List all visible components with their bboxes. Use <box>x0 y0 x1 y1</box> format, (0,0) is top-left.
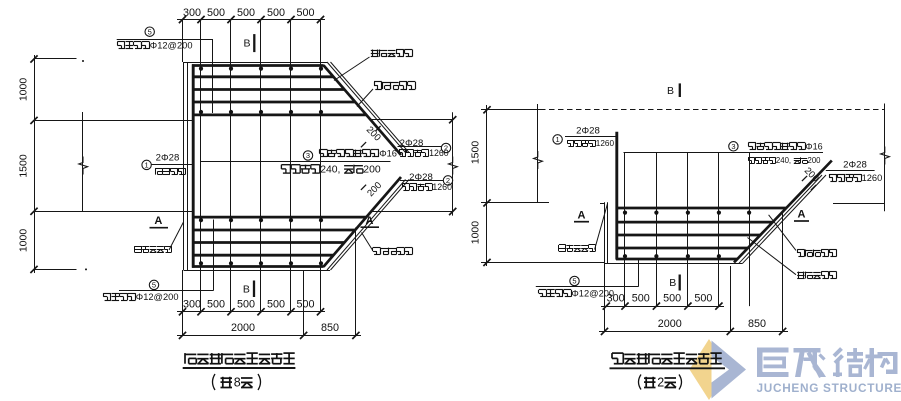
break symbol <box>534 151 543 169</box>
ext line <box>782 212 784 331</box>
dim tick <box>653 303 660 310</box>
grout outline diag top A <box>327 62 406 153</box>
dim tick <box>715 303 722 310</box>
dim line bottom (2000,850) <box>177 335 361 337</box>
dim tick <box>317 308 324 315</box>
label leader <box>357 89 373 107</box>
logo char GOU <box>870 348 875 377</box>
svg-text:2000: 2000 <box>658 318 682 330</box>
ext line left col <box>182 20 184 63</box>
svg-text:500: 500 <box>267 7 285 19</box>
label 3 circle <box>303 151 312 160</box>
label new grout text <box>374 81 382 83</box>
dim tick <box>483 259 490 266</box>
svg-text:A: A <box>366 215 374 227</box>
label 1 circle <box>142 160 151 169</box>
rebar dot <box>259 261 263 265</box>
corbel bar (bottom corbel) <box>192 254 334 257</box>
break symbol <box>79 157 88 175</box>
label 5 leader drop <box>212 40 214 114</box>
steel plate line <box>604 202 606 263</box>
svg-text:B: B <box>669 277 676 289</box>
label 1 text depth <box>567 140 574 142</box>
svg-text:500: 500 <box>267 298 285 310</box>
corbel bar (top corbel) <box>192 75 334 78</box>
ext line <box>730 266 732 331</box>
svg-text:2000: 2000 <box>231 322 255 334</box>
label 3 circle <box>729 142 738 151</box>
logo char JU <box>757 348 789 353</box>
section B bar <box>253 34 255 52</box>
ext line <box>303 270 305 335</box>
corbel bar (bottom corbel) <box>192 241 345 244</box>
svg-text:200: 200 <box>802 165 821 184</box>
title left drawing <box>184 353 186 364</box>
rebar line vertical <box>260 20 262 312</box>
rebar dot <box>199 110 203 114</box>
dim tick <box>257 308 264 315</box>
dim tick <box>317 16 324 23</box>
svg-text:300: 300 <box>607 293 625 305</box>
corbel bar <box>616 234 760 237</box>
svg-text:2: 2 <box>444 144 448 153</box>
rebar dot <box>199 67 203 71</box>
corbel bar (top corbel) <box>192 88 345 91</box>
rebar dot <box>717 211 721 215</box>
dim tick <box>179 332 186 339</box>
section B bar <box>253 281 255 298</box>
grout outline diag bottom B <box>331 180 410 271</box>
grout outline diag A <box>743 175 826 263</box>
rebar dot <box>319 218 323 222</box>
pier left edge line <box>82 112 84 212</box>
dim ext <box>481 109 540 111</box>
steel plate left line <box>183 62 185 270</box>
rebar line vertical <box>290 20 292 312</box>
dim line right vertical <box>452 112 454 215</box>
label leader <box>362 233 373 250</box>
svg-text:200: 200 <box>808 156 822 165</box>
steel plate left line 2 <box>187 62 189 270</box>
svg-text:850: 850 <box>748 318 766 330</box>
svg-text:500: 500 <box>296 7 314 19</box>
svg-text:1500: 1500 <box>470 141 482 165</box>
svg-text:A: A <box>798 209 806 221</box>
svg-text:1: 1 <box>556 135 560 144</box>
label 5 leader <box>536 286 639 288</box>
rebar dot <box>686 211 690 215</box>
label 3 text line1 <box>319 149 327 151</box>
dim ext / pier edge <box>481 202 549 204</box>
diag dim tick <box>802 176 807 181</box>
svg-text:200: 200 <box>365 180 384 199</box>
diag dim tick <box>811 185 816 190</box>
grout outline bottom <box>184 270 331 272</box>
label 2 text depth <box>399 149 406 151</box>
dim ext <box>481 262 604 264</box>
title underline <box>183 367 296 369</box>
label 5 leader rise <box>213 220 215 291</box>
plate step <box>600 203 604 205</box>
label 3 leader <box>624 152 824 154</box>
dim tick <box>197 16 204 23</box>
diag dim tick <box>361 142 366 147</box>
dim tick <box>449 208 456 215</box>
break symbol <box>881 147 890 165</box>
pier edge top right <box>371 119 453 121</box>
label 1 text <box>155 168 157 175</box>
dim line bottom (300,500x4) <box>177 311 325 313</box>
label 3 text line2 <box>281 164 290 166</box>
corbel edge diag (thick) <box>734 161 832 263</box>
svg-text:2Φ28: 2Φ28 <box>400 138 424 149</box>
grout outline diag B <box>739 175 822 263</box>
dim tick <box>30 55 37 62</box>
label 1 circle <box>553 135 562 144</box>
pier edge bottom right <box>371 211 453 213</box>
label leader <box>748 238 797 275</box>
dim line bottom (2000,850) <box>599 331 788 333</box>
rebar dot <box>319 67 323 71</box>
section B bar <box>679 83 681 97</box>
rebar dot <box>319 261 323 265</box>
corbel bar (bottom corbel) <box>192 265 324 268</box>
section B bar <box>679 275 681 291</box>
dim tick <box>197 308 204 315</box>
rebar dot <box>319 110 323 114</box>
corbel bar <box>616 258 737 261</box>
svg-text:500: 500 <box>694 293 712 305</box>
logo triangle blue <box>712 341 747 399</box>
diag dim tick <box>361 185 366 190</box>
svg-text:B: B <box>667 85 674 97</box>
svg-text:JUCHENG STRUCTURE: JUCHENG STRUCTURE <box>757 381 901 395</box>
svg-text:2Φ28: 2Φ28 <box>843 160 867 171</box>
grout outline top <box>184 62 328 64</box>
label 5 circle <box>149 280 158 289</box>
rebar dot <box>199 261 203 265</box>
dim tick <box>30 117 37 124</box>
rebar dot <box>289 218 293 222</box>
svg-text:1000: 1000 <box>18 78 30 102</box>
label 5 leader <box>117 39 213 41</box>
corbel bar <box>616 247 748 250</box>
label 2 text depth <box>402 183 409 185</box>
diag dim tick <box>375 126 380 131</box>
label leader <box>334 57 370 81</box>
svg-text:1000: 1000 <box>470 221 482 245</box>
label 2 circle <box>441 143 450 152</box>
dim tick <box>227 16 234 23</box>
pier edge bottom <box>34 211 193 213</box>
rebar dot <box>747 211 751 215</box>
rebar dot <box>199 218 203 222</box>
section A underline <box>574 221 589 223</box>
rebar dot <box>229 261 233 265</box>
label steel plate text <box>135 246 142 248</box>
label new grout text <box>373 247 380 249</box>
rebar dot <box>686 254 690 258</box>
label 5 text <box>117 41 125 43</box>
pier corner dot <box>82 60 84 62</box>
dim ext <box>34 269 77 271</box>
ext line <box>604 262 606 331</box>
section A underline <box>361 226 380 228</box>
dim tick <box>449 116 456 123</box>
corbel edge diag top (thick) <box>324 65 402 155</box>
rebar line vertical <box>718 152 720 306</box>
svg-text:2: 2 <box>446 176 450 185</box>
label 5 circle <box>145 27 154 36</box>
dim line top (300,500x4) <box>177 19 325 21</box>
corbel bar <box>616 207 786 210</box>
label 2 text depth <box>829 174 837 176</box>
dim tick <box>621 303 628 310</box>
rebar dot <box>623 254 627 258</box>
svg-text:500: 500 <box>663 293 681 305</box>
section A underline <box>794 220 809 222</box>
logo char CHENG <box>794 348 821 353</box>
dim tick <box>300 332 307 339</box>
svg-text:500: 500 <box>632 293 650 305</box>
corbel bar (top corbel) <box>192 114 367 117</box>
svg-text:1500: 1500 <box>18 154 30 178</box>
rebar dot <box>717 254 721 258</box>
label new grout text <box>797 249 804 251</box>
label 2 leader <box>398 146 442 148</box>
rebar dot <box>229 110 233 114</box>
rebar dot <box>654 211 658 215</box>
dim tick <box>601 328 608 335</box>
svg-text:2Φ28: 2Φ28 <box>409 172 433 183</box>
svg-text:1260: 1260 <box>862 173 883 183</box>
svg-text:1000: 1000 <box>18 229 30 253</box>
dim tick <box>30 208 37 215</box>
dim tick <box>179 308 186 315</box>
label corbel thickness edge text <box>372 50 374 57</box>
svg-text:Φ12@200: Φ12@200 <box>150 41 193 51</box>
dim ext <box>34 58 77 60</box>
svg-text:1260: 1260 <box>596 139 615 148</box>
dim line left vertical <box>486 105 488 266</box>
corbel bar (top corbel) <box>192 64 324 67</box>
rebar dot <box>259 110 263 114</box>
svg-text:B: B <box>243 38 250 50</box>
corbel bar (bottom corbel) <box>192 216 367 219</box>
rebar line vertical <box>624 152 626 306</box>
corbel bar (bottom corbel) <box>192 229 355 232</box>
svg-text:2Φ28: 2Φ28 <box>156 153 180 164</box>
dim tick <box>483 199 490 206</box>
svg-text:Φ16: Φ16 <box>379 149 397 159</box>
ext line left col lower <box>182 270 184 335</box>
dim tick <box>257 16 264 23</box>
svg-text:2: 2 <box>657 375 664 389</box>
logo char JIE <box>834 349 842 357</box>
svg-text:B: B <box>243 283 250 295</box>
dim tick <box>30 266 37 273</box>
steel plate line 2 <box>607 202 609 263</box>
svg-text:200: 200 <box>363 165 381 176</box>
logo diamond yellow <box>690 339 729 400</box>
grout outline diag top B <box>331 62 410 153</box>
rebar dot <box>229 218 233 222</box>
through rebar (thick vertical) <box>615 132 618 260</box>
label 2 leader <box>400 180 443 182</box>
label 3 leader <box>201 161 391 163</box>
label 3 text line1 <box>748 142 756 144</box>
rebar line vertical <box>230 20 232 312</box>
label 1 leader <box>151 164 194 166</box>
title sub (2 pcs) <box>639 375 642 390</box>
svg-text:5: 5 <box>572 277 576 286</box>
pier left edge line <box>537 104 539 203</box>
rebar line vertical <box>320 20 322 312</box>
dim tick <box>603 303 610 310</box>
pier corner dot <box>85 268 87 270</box>
dim tick <box>483 106 490 113</box>
rebar dot <box>289 261 293 265</box>
rebar dot <box>229 67 233 71</box>
title underline <box>610 367 726 369</box>
label 1 leader <box>565 136 617 138</box>
dim tick <box>227 308 234 315</box>
dim tick <box>179 16 186 23</box>
dim tick <box>287 308 294 315</box>
svg-text:A: A <box>578 209 586 221</box>
logo notch white <box>712 357 730 383</box>
diag dim tick <box>375 201 380 206</box>
svg-text:300: 300 <box>183 7 201 19</box>
label 2 leader <box>826 170 875 172</box>
pier edge right <box>833 203 885 205</box>
section A underline <box>150 227 169 229</box>
svg-text:Φ12@200: Φ12@200 <box>136 292 179 302</box>
svg-text:8: 8 <box>234 375 241 389</box>
label leader <box>595 204 608 250</box>
svg-text:500: 500 <box>207 298 225 310</box>
corbel base edge (thick vertical) <box>192 64 195 268</box>
title sub (8 pcs) <box>213 374 216 390</box>
label leader <box>169 222 184 250</box>
svg-text:A: A <box>154 215 162 227</box>
svg-text:500: 500 <box>237 7 255 19</box>
dim line left vertical <box>34 55 36 273</box>
pier edge dashed line <box>540 109 885 111</box>
dim tick <box>684 303 691 310</box>
label corbel thickness edge text <box>798 272 800 279</box>
rebar line vertical <box>656 152 658 306</box>
rebar dot <box>623 211 627 215</box>
label 5 circle <box>570 276 579 285</box>
svg-text:500: 500 <box>237 298 255 310</box>
rebar dot <box>289 67 293 71</box>
label 5 leader rise <box>638 260 640 287</box>
rebar line vertical <box>200 20 202 312</box>
svg-text:Φ16: Φ16 <box>805 141 822 151</box>
label 2 circle <box>443 176 452 185</box>
rebar dot <box>259 218 263 222</box>
label 5 leader <box>119 290 214 292</box>
dim tick <box>287 16 294 23</box>
pier edge top <box>34 120 193 122</box>
label steel plate text <box>559 244 566 246</box>
break symbol <box>449 157 458 175</box>
dim tick <box>352 332 359 339</box>
svg-text:3: 3 <box>731 142 735 151</box>
svg-text:3: 3 <box>306 151 310 160</box>
label 5 text <box>539 289 547 291</box>
label 5 text <box>103 293 111 295</box>
ext line <box>355 228 357 336</box>
corbel bar <box>616 221 772 224</box>
svg-text:2Φ28: 2Φ28 <box>576 125 600 136</box>
label 3 text line2 <box>748 157 754 159</box>
rebar dot <box>289 110 293 114</box>
svg-text:5: 5 <box>148 27 152 36</box>
rebar line vertical <box>687 152 689 306</box>
svg-text:240,: 240, <box>776 156 791 165</box>
svg-text:240,: 240, <box>320 165 340 176</box>
title right drawing <box>612 352 623 354</box>
svg-text:1: 1 <box>145 161 149 170</box>
svg-text:850: 850 <box>321 322 339 334</box>
corbel edge diag bottom (thick) <box>324 177 402 267</box>
corbel bar (top corbel) <box>192 101 355 104</box>
svg-text:300: 300 <box>183 298 201 310</box>
grout outline bottom <box>604 263 743 265</box>
rebar line vertical <box>749 152 751 306</box>
label leader <box>769 215 796 251</box>
svg-text:500: 500 <box>296 298 314 310</box>
rebar dot <box>259 67 263 71</box>
dim tick <box>779 328 786 335</box>
dim tick <box>727 328 734 335</box>
svg-text:5: 5 <box>152 281 156 290</box>
svg-text:500: 500 <box>207 7 225 19</box>
dim line bottom (300,500x3) <box>601 306 724 308</box>
grout outline diag bottom A <box>327 180 406 271</box>
pier right edge line <box>884 104 886 212</box>
rebar dot <box>654 254 658 258</box>
